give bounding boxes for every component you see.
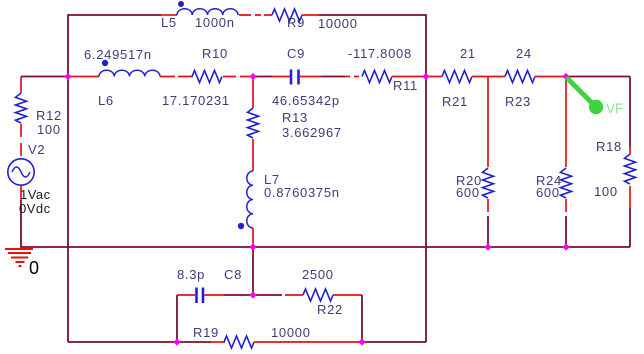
- capacitor C9: [290, 70, 293, 85]
- svg-text:R23: R23: [505, 94, 531, 109]
- svg-text:C8: C8: [224, 267, 242, 282]
- wire source stub above R12 (red): [20, 77, 22, 94]
- wire L5 to R9 (red dashed): [239, 14, 272, 16]
- svg-text:L6: L6: [98, 93, 114, 108]
- resistor R21: [442, 71, 472, 83]
- svg-text:L5: L5: [161, 15, 177, 30]
- wire R19 right (red): [254, 341, 358, 343]
- wire L7 to ground rail (red): [252, 228, 254, 247]
- svg-text:R18: R18: [596, 139, 622, 154]
- resistor R9: [272, 9, 302, 21]
- svg-text:3.662967: 3.662967: [282, 125, 342, 140]
- svg-text:R9: R9: [287, 15, 305, 30]
- ground rail y247 (maroon): [20, 246, 630, 248]
- svg-text:24: 24: [516, 46, 532, 61]
- wire row2 junction to L6 (red): [68, 76, 99, 78]
- wire R20 top (red): [487, 77, 489, 168]
- inner loop right vertical x362 (maroon): [361, 295, 363, 342]
- svg-text:6.249517n: 6.249517n: [84, 47, 152, 62]
- resistor R19: [224, 336, 254, 348]
- probe VF marker: [568, 79, 594, 105]
- wire R20 bottom (red then maroon): [487, 199, 489, 212]
- wire L6 to R10 (red dashed): [160, 76, 193, 78]
- svg-text:R10: R10: [202, 46, 228, 61]
- bottom rail left (maroon): [68, 341, 211, 343]
- inner loop left vertical x177 (maroon): [176, 295, 178, 342]
- source V2: [8, 159, 34, 185]
- wire V2 to ground (red then maroon): [20, 186, 22, 201]
- svg-text:10000: 10000: [271, 325, 311, 340]
- resistor R12: [16, 93, 27, 123]
- inductor L5: [177, 9, 238, 15]
- wire R24 bottom (red then maroon): [565, 199, 567, 212]
- wire R22 right (red): [333, 294, 362, 296]
- wire R9 right (red): [302, 14, 319, 16]
- svg-text:2500: 2500: [302, 267, 334, 282]
- svg-text:0Vdc: 0Vdc: [19, 201, 51, 216]
- wire C9 to R11 (red, maroon, red dash): [300, 76, 321, 78]
- svg-text:0.8760375n: 0.8760375n: [264, 185, 340, 200]
- bottom rail right (maroon): [358, 341, 426, 343]
- wire R18 top (maroon then red): [629, 77, 631, 148]
- svg-text:1Vac: 1Vac: [20, 187, 51, 202]
- resistor R11: [362, 71, 392, 83]
- svg-text:R22: R22: [317, 302, 343, 317]
- svg-text:R11: R11: [393, 78, 418, 93]
- wire R12 to V2 (red dashed): [20, 124, 22, 158]
- inductor L6: [99, 70, 160, 76]
- svg-text:-117.8008: -117.8008: [348, 46, 412, 61]
- wire left vertical x68: [67, 14, 69, 342]
- wire R18 bottom (red then maroon): [629, 186, 631, 208]
- wire R11 to node (red): [392, 76, 442, 78]
- wire R23 to node (red): [535, 76, 564, 78]
- svg-text:VF: VF: [606, 101, 623, 116]
- wire C8 to node (red dashed): [205, 294, 225, 296]
- wire R21 to R23 (red): [472, 76, 505, 78]
- resistor R20: [483, 168, 494, 198]
- svg-text:17.170231: 17.170231: [162, 93, 230, 108]
- svg-text:100: 100: [594, 184, 618, 199]
- wire ground node down to C8 row (maroon): [252, 247, 254, 295]
- svg-text:600: 600: [536, 185, 560, 200]
- wire mid vertical x426: [425, 14, 427, 342]
- wire into R19 (red): [211, 341, 225, 343]
- wire source top (maroon): [21, 76, 68, 78]
- wire C8 left lead (red): [177, 294, 195, 296]
- svg-text:10000: 10000: [318, 16, 358, 31]
- L5 phase dot: [178, 1, 184, 7]
- svg-text:V2: V2: [28, 142, 45, 157]
- svg-text:8.3p: 8.3p: [177, 267, 205, 282]
- resistor R18: [625, 154, 636, 184]
- wire R13 to L7 (red): [252, 139, 254, 171]
- inductor L7: [247, 171, 253, 228]
- wire R10 to node (red dashed): [223, 76, 250, 78]
- L6 phase dot: [102, 60, 108, 66]
- svg-text:R13: R13: [282, 110, 308, 125]
- wire node to C9 (maroon then red): [253, 76, 272, 78]
- node junction dots: [64, 73, 71, 80]
- resistor R10: [192, 71, 222, 83]
- wire node to right corner (maroon): [566, 76, 630, 78]
- svg-text:46.65342p: 46.65342p: [272, 93, 340, 108]
- wire node to R22 (red dashed): [256, 294, 282, 296]
- resistor R22: [303, 289, 333, 301]
- ground symbol: [5, 249, 33, 266]
- svg-text:100: 100: [37, 122, 61, 137]
- svg-text:R12: R12: [36, 108, 62, 123]
- wire top rail left (maroon): [68, 14, 161, 16]
- svg-text:21: 21: [460, 46, 476, 61]
- L7 phase dot: [238, 223, 244, 229]
- svg-text:R19: R19: [193, 325, 219, 340]
- svg-text:0: 0: [29, 258, 39, 278]
- wire into L5 (red): [161, 14, 177, 16]
- resistor R24: [561, 168, 572, 198]
- svg-text:600: 600: [456, 185, 480, 200]
- svg-text:C9: C9: [287, 46, 305, 61]
- capacitor C8: [195, 288, 198, 304]
- wire node to R13 (red): [252, 77, 254, 109]
- svg-text:R21: R21: [442, 94, 468, 109]
- resistor R23: [505, 71, 535, 83]
- wire top rail right (maroon): [319, 14, 426, 16]
- resistor R13: [248, 108, 259, 138]
- svg-text:1000n: 1000n: [195, 15, 235, 30]
- wire R24 top (red): [565, 77, 567, 168]
